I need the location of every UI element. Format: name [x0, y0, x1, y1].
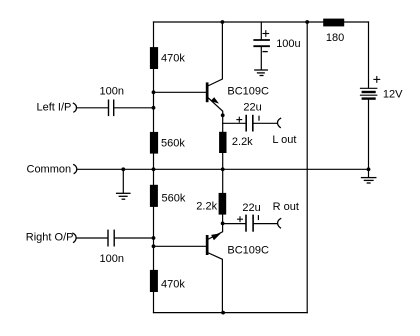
wire: lower base	[154, 245, 206, 247]
battery plus mark	[374, 77, 380, 83]
wire: Q1 emitter down to R 2.2k upper	[209, 98, 223, 132]
svg-text:Common: Common	[27, 163, 72, 175]
resistor R5 180 (supply)	[323, 19, 344, 27]
wire: bottom rail	[154, 312, 308, 314]
connector: Right O/P	[73, 233, 76, 242]
wire: Q2 collector to bottom rail	[209, 253, 223, 313]
svg-text:12V: 12V	[383, 89, 403, 101]
wire: Right O/P to C 100n	[76, 237, 108, 239]
capacitor C4 22u (L out coupling) plates	[246, 116, 253, 131]
ground (common rail)	[117, 193, 130, 199]
C3 minus mark	[263, 51, 267, 53]
resistor R2 560k (upper)	[150, 132, 158, 154]
wire: 22u to R out connector	[253, 223, 277, 225]
wire: left vertical, common to lower 470k	[153, 207, 155, 270]
capacitor C1 100n (left input) plates	[109, 100, 114, 115]
svg-text:560k: 560k	[161, 137, 185, 149]
wire: branch to R out coupling cap	[223, 223, 246, 225]
connector: R out	[278, 219, 281, 228]
svg-text:100u: 100u	[276, 38, 300, 50]
svg-text:22u: 22u	[242, 202, 260, 214]
capacitor C2 100n (right input) plates	[108, 230, 114, 246]
svg-text:180: 180	[326, 32, 344, 44]
svg-text:2.2k: 2.2k	[196, 200, 217, 212]
wire: C 100n to bias divider	[114, 107, 154, 109]
wire: battery negative lead	[368, 99, 370, 169]
node: common / emitter resistors	[221, 167, 225, 171]
capacitor C5 22u (R out coupling) plates	[246, 215, 253, 231]
wire: left vertical, 470k lower to bottom rail	[153, 292, 155, 313]
node: upper base / divider	[152, 90, 156, 94]
node: collector rail junction (top)	[221, 20, 225, 24]
Q1 emitter arrow	[211, 97, 220, 103]
svg-text:BC109C: BC109C	[227, 85, 269, 97]
battery B1 plate 2 (short)	[363, 91, 375, 93]
C4 plus mark	[237, 117, 242, 122]
wire: upper base	[154, 91, 206, 93]
svg-text:2.2k: 2.2k	[232, 136, 253, 148]
C3 plus mark	[263, 31, 269, 37]
battery B1 plate 1 (long, +)	[361, 87, 377, 89]
wire: top supply rail	[154, 21, 369, 23]
wire: lower 2.2k to Q2 emitter	[209, 215, 223, 239]
wire: Left I/P to C 100n	[77, 107, 109, 109]
svg-text:470k: 470k	[161, 52, 185, 64]
transistor Q1 BC109C (upper) base bar	[206, 82, 209, 102]
svg-text:BC109C: BC109C	[227, 244, 269, 256]
node: lower base / divider	[152, 244, 156, 248]
wire: left vertical, 560k to common	[153, 154, 155, 185]
node: left input coupling / divider	[152, 106, 156, 110]
transistor Q2 BC109C (lower) base bar	[206, 235, 209, 255]
ground (battery negative)	[362, 178, 376, 183]
capacitor C3 100u (supply decoupling) plates	[254, 40, 269, 46]
node: inner vertical / top rail	[305, 20, 309, 24]
node: common / battery negative	[367, 167, 371, 171]
connector: L out	[278, 118, 281, 127]
C5 minus tick	[257, 216, 259, 220]
wire: battery positive lead	[368, 22, 370, 88]
resistor R4 470k (lower)	[150, 270, 158, 292]
resistor R3 560k (lower)	[150, 185, 158, 207]
wire: C 100u to ground	[260, 47, 262, 70]
svg-text:Left I/P: Left I/P	[37, 101, 72, 113]
C4 minus tick	[258, 116, 260, 120]
svg-text:22u: 22u	[243, 102, 261, 114]
svg-text:100n: 100n	[100, 253, 124, 265]
battery B1 plate 3 (long)	[361, 94, 377, 96]
wire: common ground stub	[122, 169, 124, 193]
connector: Common	[74, 165, 77, 174]
node: Q2 collector / bottom rail	[221, 311, 225, 315]
wire: left vertical, top rail to R 470k upper	[153, 22, 155, 47]
C5 plus mark	[238, 217, 243, 222]
wire: 22u to L out connector	[253, 122, 277, 124]
connector: Left I/P	[73, 103, 76, 112]
svg-text:560k: 560k	[162, 193, 186, 205]
svg-text:R out: R out	[273, 201, 299, 213]
svg-text:470k: 470k	[161, 278, 185, 290]
svg-text:Right O/P: Right O/P	[26, 232, 74, 244]
ground (under 100u)	[255, 70, 267, 76]
node: Q1 emitter junction	[221, 113, 225, 117]
node: common / ground stub	[121, 167, 125, 171]
wire: Q1 collector to top rail	[209, 22, 223, 86]
wire: branch to L out coupling cap	[223, 122, 246, 124]
node: common / divider midpoint	[152, 167, 156, 171]
Q2 emitter arrow	[211, 233, 221, 240]
battery B1 plate 4 (short)	[363, 97, 375, 99]
node: right input coupling / divider	[152, 236, 156, 240]
resistor R7 2.2k (lower emitter)	[219, 193, 227, 215]
wire: left vertical, 470k to 560k (bias node)	[153, 69, 155, 132]
resistor R1 470k (upper)	[150, 47, 158, 69]
wire: battery negative ground stub	[368, 169, 370, 177]
wire: inner right vertical (rail to bottom rail)	[306, 22, 308, 313]
resistor R6 2.2k (upper emitter)	[219, 132, 226, 153]
svg-text:100n: 100n	[100, 85, 124, 97]
svg-text:L out: L out	[272, 134, 296, 146]
wire: common rail	[77, 168, 369, 170]
wire: C 100n to bias divider (lower)	[114, 237, 153, 239]
wire: top rail to C 100u	[260, 22, 262, 39]
node: Q2 emitter junction	[221, 222, 225, 226]
wire: upper 2.2k to common to lower 2.2k	[222, 153, 224, 193]
